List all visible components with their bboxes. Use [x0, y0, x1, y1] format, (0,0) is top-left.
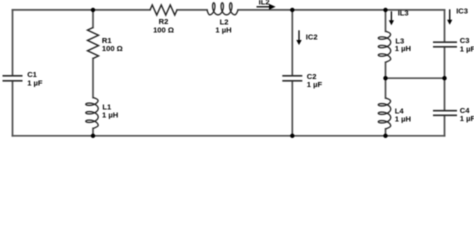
svg-text:1 µF: 1 µF	[460, 114, 474, 123]
svg-text:IC2: IC2	[306, 33, 318, 42]
svg-text:1 µF: 1 µF	[460, 45, 474, 54]
svg-text:IL2: IL2	[259, 0, 270, 6]
svg-text:1 µH: 1 µH	[102, 110, 118, 119]
svg-text:1 µF: 1 µF	[27, 78, 43, 87]
svg-text:1 µF: 1 µF	[307, 80, 323, 89]
svg-text:1 µH: 1 µH	[395, 44, 411, 53]
svg-text:IC3: IC3	[456, 7, 468, 16]
svg-text:IL3: IL3	[398, 9, 409, 18]
svg-text:1 µH: 1 µH	[395, 115, 411, 124]
svg-text:100 Ω: 100 Ω	[153, 25, 174, 34]
svg-text:1 µH: 1 µH	[215, 25, 231, 34]
svg-text:100 Ω: 100 Ω	[102, 44, 123, 53]
